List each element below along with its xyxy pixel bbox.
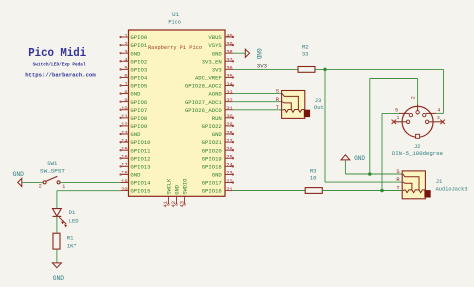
svg-text:LED: LED — [69, 217, 80, 224]
IC U1 Pico body — [129, 30, 226, 196]
wire U1 pin 38 to ground flag — [233, 52, 245, 54]
wire GND to SW1 pin 2 — [22, 181, 43, 183]
svg-text:J1: J1 — [436, 178, 443, 185]
node 3V3 label — [257, 63, 268, 70]
svg-text:Raspberry Pi Pico: Raspberry Pi Pico — [148, 45, 202, 51]
U1 pin 39 VSYS — [208, 41, 233, 49]
svg-text:GPIO20: GPIO20 — [202, 147, 223, 154]
junction on ground run — [368, 172, 372, 176]
svg-text:GPIO10: GPIO10 — [130, 139, 151, 146]
wire ground stem — [344, 160, 346, 174]
svg-text:R3: R3 — [310, 167, 317, 174]
svg-text:9: 9 — [124, 98, 127, 104]
wire U1 pin 20 to LED branch — [57, 190, 120, 192]
svg-text:SWDIO: SWDIO — [183, 179, 189, 195]
svg-text:33: 33 — [302, 51, 309, 58]
svg-text:ADC_VREF: ADC_VREF — [195, 75, 222, 82]
IC U1 reference label — [168, 11, 180, 26]
resistor R3 10 — [305, 167, 322, 193]
svg-text:4: 4 — [437, 107, 440, 113]
svg-text:3V3: 3V3 — [257, 63, 268, 70]
svg-text:Pico Midi: Pico Midi — [28, 46, 86, 60]
svg-text:AudioJack3: AudioJack3 — [436, 186, 468, 193]
svg-text:SW1: SW1 — [47, 160, 58, 167]
svg-text:GPIO13: GPIO13 — [130, 163, 150, 170]
svg-text:Pico: Pico — [168, 20, 180, 26]
svg-text:GPIO2: GPIO2 — [130, 58, 147, 65]
ground symbol at pin 38 — [245, 48, 262, 59]
resistor R1 1K* — [53, 233, 77, 249]
svg-text:AGND: AGND — [208, 91, 222, 98]
svg-text:GPIO18: GPIO18 — [202, 163, 222, 170]
svg-text:27: 27 — [226, 138, 232, 144]
svg-text:31: 31 — [226, 106, 232, 112]
svg-text:Switch/LED/Exp Pedal: Switch/LED/Exp Pedal — [33, 62, 86, 68]
wire R1 to ground — [56, 249, 58, 263]
svg-text:25: 25 — [226, 155, 232, 161]
svg-text:GND: GND — [212, 50, 223, 57]
svg-text:15: 15 — [121, 146, 127, 152]
svg-text:1: 1 — [124, 33, 127, 39]
svg-text:GPIO9: GPIO9 — [130, 123, 147, 130]
U1 pin 36 3V3 — [212, 66, 233, 74]
svg-text:5: 5 — [395, 107, 398, 113]
svg-text:1K*: 1K* — [67, 243, 77, 250]
svg-text:D1: D1 — [69, 209, 76, 216]
svg-text:16: 16 — [121, 155, 127, 161]
svg-text:GPIO7: GPIO7 — [130, 107, 147, 114]
svg-text:11: 11 — [121, 114, 127, 120]
svg-text:2: 2 — [410, 96, 416, 99]
svg-text:GND: GND — [130, 50, 141, 57]
svg-text:7: 7 — [124, 82, 127, 88]
U1 value label Raspberry Pi Pico — [148, 45, 202, 51]
svg-text:GND: GND — [130, 172, 141, 179]
wire up to DIN pin 5 — [381, 113, 383, 190]
svg-text:2: 2 — [124, 41, 127, 47]
U1 pin 1 GPIO0 — [120, 33, 148, 41]
wire R3 to J1 T pin — [322, 190, 402, 192]
wire SW1 to U1 pin 19 — [60, 181, 120, 183]
link https://barbarach.com — [25, 72, 96, 79]
svg-text:22: 22 — [226, 179, 232, 185]
wire U1 pin 32 to J3 R — [233, 101, 281, 103]
svg-text:26: 26 — [226, 146, 232, 152]
svg-text:8: 8 — [124, 90, 127, 96]
U1 pin 23 GND — [212, 171, 234, 179]
svg-text:GND: GND — [212, 172, 223, 179]
svg-text:18: 18 — [121, 171, 127, 177]
U1 pin 6 GPIO4 — [120, 74, 148, 82]
U1 pin 34 GPIO28_ADC2 — [185, 82, 234, 90]
svg-text:12: 12 — [121, 122, 127, 128]
connector J2 DIN-5_180degree — [392, 96, 445, 157]
svg-text:32: 32 — [226, 98, 232, 104]
wire ground across top — [370, 78, 418, 80]
svg-text:35: 35 — [226, 74, 232, 80]
U1 pin 42 GND — [171, 185, 180, 207]
svg-text:GND: GND — [53, 275, 65, 282]
svg-text:33: 33 — [226, 90, 232, 96]
svg-text:GND: GND — [130, 131, 141, 138]
svg-text:GPIO6: GPIO6 — [130, 99, 147, 106]
svg-text:38: 38 — [226, 49, 232, 55]
svg-text:43: 43 — [179, 201, 185, 207]
svg-text:23: 23 — [226, 171, 232, 177]
svg-text:29: 29 — [226, 122, 232, 128]
U1 pin 18 GND — [120, 171, 141, 179]
U1 pin 19 GPIO14 — [120, 179, 151, 187]
U1 pin 25 GPIO19 — [202, 155, 234, 163]
svg-text:19: 19 — [121, 179, 127, 185]
svg-text:3V3_EN: 3V3_EN — [202, 58, 222, 65]
U1 pin 33 AGND — [208, 90, 233, 98]
U1 pin 40 VBUS — [208, 33, 233, 41]
U1 pin 15 GPIO11 — [120, 146, 151, 154]
wire ground up — [369, 79, 371, 175]
svg-text:21: 21 — [226, 187, 232, 193]
svg-text:1: 1 — [62, 184, 65, 190]
svg-text:41: 41 — [163, 201, 169, 207]
wire R2 to DIN pin 4 branch — [315, 68, 444, 70]
svg-text:34: 34 — [226, 82, 232, 88]
U1 pin 35 ADC_VREF — [195, 74, 234, 82]
svg-text:13: 13 — [121, 130, 127, 136]
U1 pin 29 GPIO22 — [202, 122, 234, 130]
U1 pin 9 GPIO6 — [120, 98, 147, 106]
svg-text:GPIO27_ADC1: GPIO27_ADC1 — [185, 99, 223, 106]
svg-text:37: 37 — [226, 58, 232, 64]
svg-text:GND: GND — [354, 155, 365, 162]
svg-text:3V3: 3V3 — [212, 66, 222, 73]
svg-text:GPIO19: GPIO19 — [202, 155, 222, 162]
svg-text:GPIO28_ADC2: GPIO28_ADC2 — [185, 83, 222, 90]
svg-text:42: 42 — [171, 201, 177, 207]
ground symbol near J2 — [341, 155, 365, 162]
svg-text:GPIO22: GPIO22 — [202, 123, 222, 130]
U1 pin 38 GND — [212, 49, 233, 57]
U1 pin 32 GPIO27_ADC1 — [185, 98, 233, 106]
U1 pin 41 SWCLK — [163, 178, 172, 208]
svg-text:SWCLK: SWCLK — [167, 178, 173, 195]
wire U1 pin 21 to R3 — [233, 190, 305, 192]
svg-text:1: 1 — [396, 115, 399, 121]
U1 pin 8 GND — [120, 90, 141, 98]
svg-text:2: 2 — [39, 184, 42, 190]
svg-text:GPIO3: GPIO3 — [130, 66, 147, 73]
svg-text:20: 20 — [121, 187, 127, 193]
wire down to LED D1 — [56, 191, 58, 209]
svg-text:GND: GND — [175, 185, 181, 195]
svg-text:28: 28 — [226, 130, 232, 136]
U1 pin 16 GPIO12 — [120, 155, 151, 163]
U1 pin 37 3V3_EN — [202, 58, 234, 66]
svg-text:RUN: RUN — [212, 115, 222, 122]
svg-text:GPIO8: GPIO8 — [130, 115, 147, 122]
junction at J1 tip — [380, 189, 384, 193]
svg-text:GND: GND — [13, 171, 25, 178]
U1 pin 20 GPIO15 — [120, 187, 150, 195]
U1 pin 26 GPIO20 — [202, 146, 234, 154]
svg-text:GPIO4: GPIO4 — [130, 75, 147, 82]
U1 pin 22 GPIO17 — [202, 179, 234, 187]
wire U1 pin 36 to R2 — [233, 68, 298, 70]
svg-text:U1: U1 — [172, 11, 179, 18]
svg-text:GPIO0: GPIO0 — [130, 34, 147, 41]
title Pico Midi — [28, 46, 86, 60]
svg-text:R1: R1 — [67, 234, 74, 241]
svg-text:3: 3 — [124, 49, 127, 55]
svg-text:DIN-5_180degree: DIN-5_180degree — [392, 150, 443, 157]
svg-text:40: 40 — [226, 33, 232, 39]
U1 pin 31 GPIO26_ADC0 — [185, 106, 233, 114]
svg-text:4: 4 — [124, 58, 127, 64]
U1 pin 28 GND — [212, 130, 234, 138]
svg-text:6: 6 — [124, 74, 127, 80]
svg-text:GPIO17: GPIO17 — [202, 180, 222, 187]
svg-text:3: 3 — [437, 115, 440, 121]
ground symbol below R1 — [52, 263, 64, 282]
svg-text:10: 10 — [310, 175, 317, 182]
U1 pin 7 GPIO5 — [120, 82, 147, 90]
resistor R2 33 — [298, 44, 315, 73]
wire down right side to DIN pin 4 — [443, 69, 445, 113]
U1 pin 4 GPIO2 — [120, 58, 147, 66]
U1 pin 43 SWDIO — [179, 179, 188, 208]
svg-text:GND: GND — [130, 91, 141, 98]
U1 pin 5 GPIO3 — [120, 66, 147, 74]
connector J1 AudioJack3 — [396, 169, 467, 199]
U1 pin 10 GPIO7 — [120, 106, 147, 114]
wire U1 pin 31 to J3 T — [233, 109, 281, 111]
wire U1 pin 33 to J3 S — [233, 93, 281, 95]
svg-text:14: 14 — [121, 138, 127, 144]
U1 pin 13 GND — [120, 130, 141, 138]
svg-text:S: S — [396, 169, 399, 175]
U1 pin 21 GPIO16 — [202, 187, 234, 195]
wire ground to J1 S pin — [345, 173, 402, 175]
svg-text:VBUS: VBUS — [208, 34, 222, 41]
U1 pin 2 GPIO1 — [120, 41, 148, 49]
subtitle Switch/LED/Exp Pedal — [33, 62, 86, 68]
U1 pin 17 GPIO13 — [120, 163, 151, 171]
svg-text:GPIO1: GPIO1 — [130, 42, 147, 49]
svg-text:GPIO16: GPIO16 — [202, 188, 222, 195]
wire to J1 R pin — [325, 181, 402, 183]
U1 pin 11 GPIO8 — [120, 114, 147, 122]
svg-text:GND: GND — [212, 131, 223, 138]
svg-text:GND: GND — [255, 48, 262, 59]
connector J3 audio jack Out — [276, 89, 324, 119]
svg-text:S: S — [276, 89, 279, 95]
wire into DIN pin 5 — [382, 112, 399, 114]
svg-text:GPIO21: GPIO21 — [202, 139, 223, 146]
LED D1 — [53, 209, 80, 228]
svg-text:24: 24 — [226, 163, 232, 169]
switch SW1 SW_SPST — [39, 160, 66, 190]
svg-text:GPIO11: GPIO11 — [130, 147, 151, 154]
U1 pin 12 GPIO9 — [120, 122, 147, 130]
svg-text:5: 5 — [124, 66, 127, 72]
U1 pin 3 GND — [120, 49, 141, 57]
wire down to DIN pin 2 — [417, 79, 419, 105]
svg-text:SW_SPST: SW_SPST — [40, 168, 66, 175]
svg-text:https://barbarach.com: https://barbarach.com — [25, 72, 96, 79]
U1 pin 30 RUN — [212, 114, 234, 122]
ground symbol at SW1 — [13, 171, 25, 186]
junction after R2 — [323, 68, 327, 72]
svg-text:GPIO5: GPIO5 — [130, 83, 147, 90]
svg-text:39: 39 — [226, 41, 232, 47]
svg-text:GPIO15: GPIO15 — [130, 188, 150, 195]
svg-text:GPIO26_ADC0: GPIO26_ADC0 — [185, 107, 223, 114]
svg-text:Out: Out — [314, 104, 324, 111]
svg-text:10: 10 — [121, 106, 127, 112]
wire junction down to J1 ring — [324, 69, 326, 182]
U1 pin 24 GPIO18 — [202, 163, 234, 171]
U1 pin 14 GPIO10 — [120, 138, 151, 146]
wire into DIN pin 4 — [436, 112, 443, 114]
svg-text:VSYS: VSYS — [208, 42, 222, 49]
svg-text:GPIO12: GPIO12 — [130, 155, 150, 162]
wire D1 to R1 — [56, 216, 58, 233]
svg-text:36: 36 — [226, 66, 232, 72]
svg-text:GPIO14: GPIO14 — [130, 180, 151, 187]
svg-text:30: 30 — [226, 114, 232, 120]
U1 pin 27 GPIO21 — [202, 138, 234, 146]
svg-text:17: 17 — [121, 163, 127, 169]
